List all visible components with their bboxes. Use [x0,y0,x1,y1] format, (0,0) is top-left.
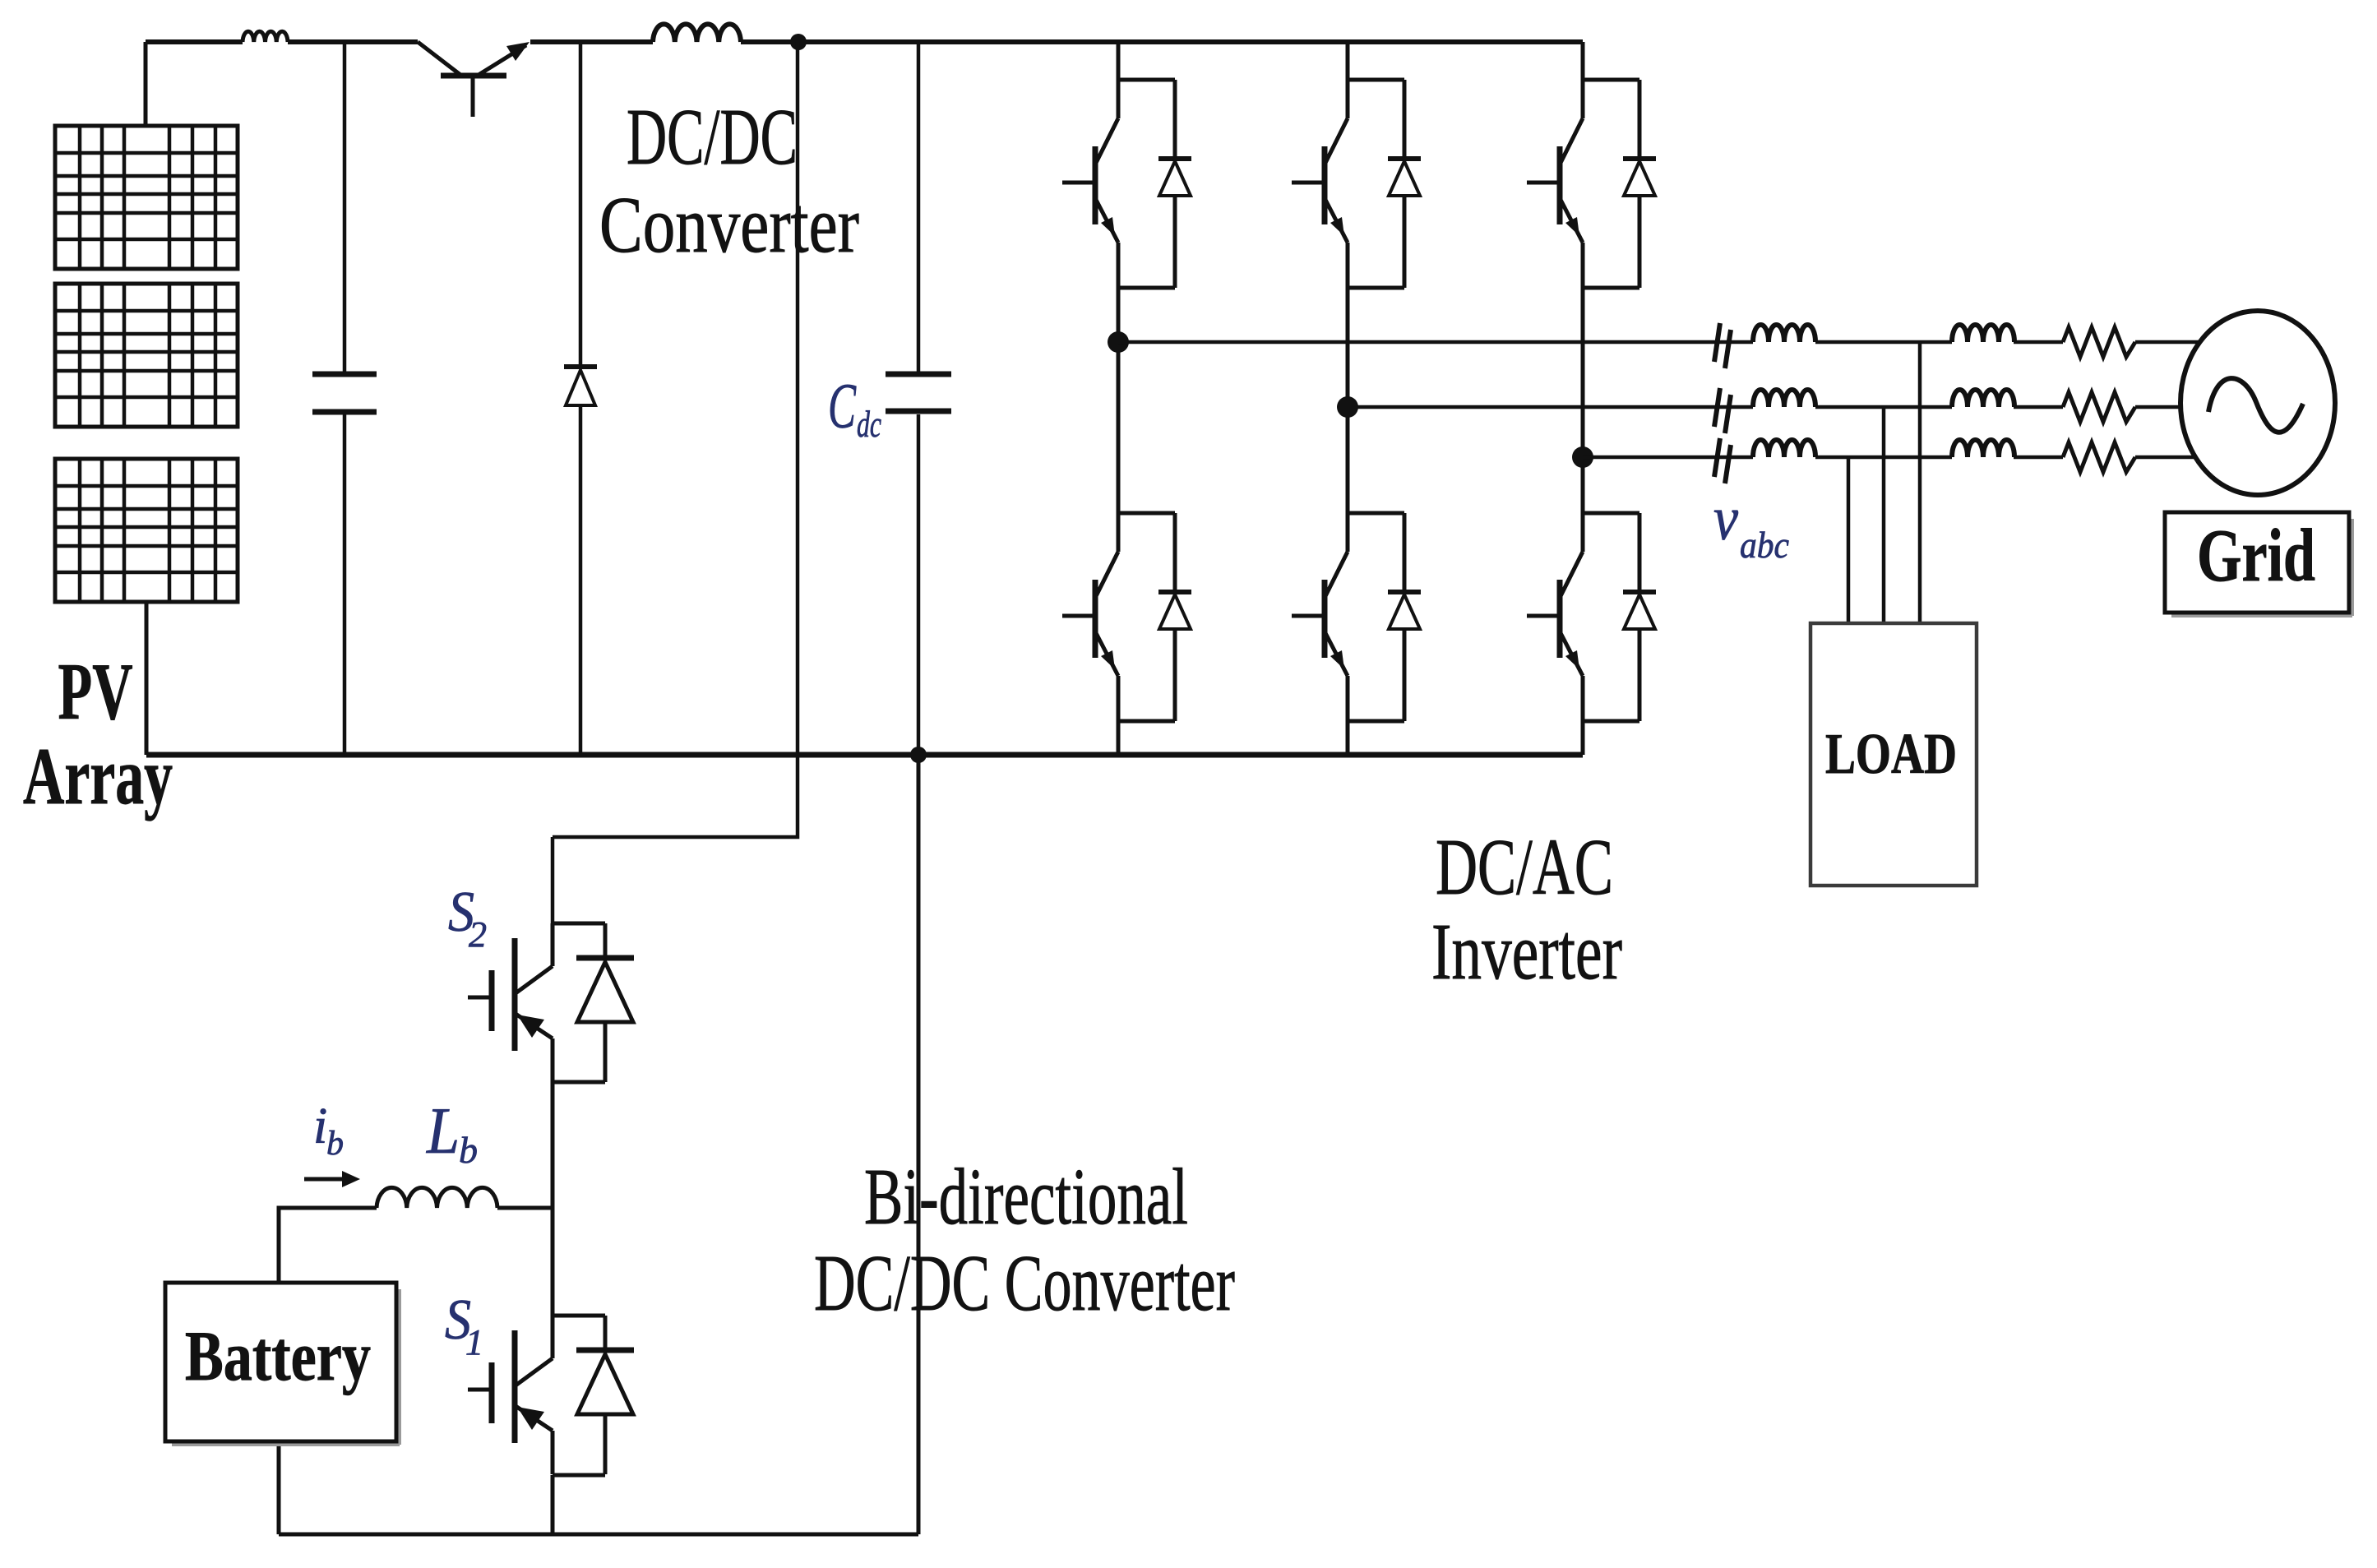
PV array module 1 [55,126,238,269]
node: phase B output [1337,396,1358,418]
capacitor Cdc [886,42,951,755]
wire: cell frame B upper [1348,80,1404,288]
capacitor C1 (PV input) [312,42,377,755]
wire: top DC bus [146,39,1583,44]
IGBT S2 [468,923,553,1082]
transistor (boost switch) [418,42,530,117]
resistor: grid Rc [2063,442,2135,472]
grid source circle [2180,311,2335,495]
inductor: grid La [1952,325,2014,342]
svg-text:LOAD: LOAD [1825,723,1957,786]
wire: cell frame S2 [553,923,605,1082]
wire: S2 leg and midpoint [551,1082,555,1534]
IGBT Q3 (phase B upper) [1292,80,1348,288]
grid sine symbol [2208,378,2303,432]
svg-text:C: C [828,370,857,442]
PV array module 2 [55,284,238,427]
wire: phase B line [1348,405,2204,409]
svg-text:Battery: Battery [185,1316,371,1395]
IGBT Q5 (phase C upper) [1527,80,1583,288]
diode DS2 [576,923,634,1082]
svg-text:v: v [1713,484,1738,553]
diode DS1 [576,1316,634,1474]
svg-text:1: 1 [465,1322,483,1362]
wire: cell frame A lower [1118,513,1175,721]
diode DQ1 [1158,80,1191,288]
svg-text:i: i [313,1099,327,1154]
inductor: filter Lc [1753,440,1815,457]
node: phase C output [1572,446,1593,468]
breaker mark phase A [1714,323,1731,368]
IGBT Q4 (phase A lower) [1062,513,1118,721]
svg-text:Grid: Grid [2197,514,2315,597]
wire: bottom DC bus [146,752,1583,758]
wire: inverter leg A [1117,42,1121,755]
wire: load tap B [1882,407,1886,623]
diode DQ5 [1623,80,1656,288]
inductor: filter Lb2 [1753,390,1815,407]
node: bottom junction [910,747,927,763]
wire: cell frame C upper [1583,80,1639,288]
svg-text:b: b [459,1129,478,1171]
node: phase A output [1108,331,1129,353]
svg-text:b: b [326,1125,344,1163]
svg-text:PV: PV [58,647,133,737]
wire: phase C line [1583,456,2212,460]
node: DC-link top junction [790,34,807,50]
wire: inverter leg B [1346,42,1350,755]
wire: cell frame C lower [1583,513,1639,721]
IGBT Q1 (phase A upper) [1062,80,1118,288]
svg-text:DC/AC: DC/AC [1436,823,1613,912]
svg-text:L: L [426,1095,460,1168]
battery box [165,1283,400,1445]
wire: bi-directional converter right leg [279,758,918,1534]
inductor: filter La [1753,325,1815,342]
svg-text:Converter: Converter [599,181,859,269]
diode DQ6 [1388,513,1421,721]
arrow: battery current ib [304,1171,360,1187]
svg-text:Inverter: Inverter [1431,908,1622,997]
diode D1 (boost freewheel) [564,42,597,755]
wire: inverter leg C [1581,42,1585,755]
resistor: grid Rb [2063,392,2135,422]
wire: battery loop [279,1208,553,1534]
LOAD box [1810,623,1977,886]
IGBT Q2 (phase C lower) [1527,513,1583,721]
wire: PV array leads [146,42,146,755]
inductor L1 (boost input) [243,31,288,42]
wire: cell frame A upper [1118,80,1175,288]
wire: DC-link vertical to bi-directional converter [553,42,798,923]
svg-text:2: 2 [469,914,487,955]
svg-text:DC/DC: DC/DC [627,93,798,181]
Grid box [2165,512,2352,616]
inductor: grid Lc [1952,440,2014,457]
inductor: grid Lb [1952,390,2014,407]
svg-text:abc: abc [1740,524,1789,566]
wire: load tap A [1918,342,1922,623]
wire: load tap C [1847,457,1851,623]
breaker mark phase B [1714,388,1731,433]
svg-text:dc: dc [857,403,881,445]
diode DQ3 [1388,80,1421,288]
PV array module 3 [55,459,238,602]
IGBT Q6 (phase B lower) [1292,513,1348,721]
IGBT S1 [468,1316,553,1474]
diode DQ2 [1623,513,1656,721]
svg-text:DC/DC Converter: DC/DC Converter [814,1239,1235,1328]
wire: phase A line [1118,340,2220,345]
diode DQ4 [1158,513,1191,721]
inductor L2 (DC/DC output) [653,24,741,42]
svg-text:Array: Array [23,732,173,821]
resistor: grid Ra [2063,327,2135,357]
breaker mark phase C [1714,438,1731,483]
wire: cell frame S1 [553,1316,605,1475]
inductor Lb (battery) [377,1187,497,1208]
wire: cell frame B lower [1348,513,1404,721]
svg-text:Bi-directional: Bi-directional [864,1153,1188,1242]
